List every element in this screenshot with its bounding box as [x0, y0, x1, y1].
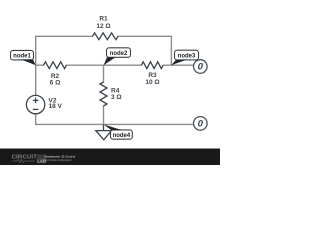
- label R3 10 ohm: [145, 72, 159, 86]
- svg-text:12 Ω: 12 Ω: [96, 23, 110, 30]
- node node3 flag: [175, 50, 199, 60]
- wire top net right of R1 down to node3: [118, 36, 171, 65]
- watermark bar: [0, 149, 220, 166]
- CircuitLab logo: [12, 154, 47, 163]
- wire node1 to R2: [36, 64, 44, 66]
- node3 pointer wedge: [171, 60, 186, 65]
- svg-text:18 V: 18 V: [49, 103, 63, 110]
- svg-text:htlp://circuitlab.com/c6kju6gv: htlp://circuitlab.com/c6kju6gvk2x2: [45, 158, 72, 162]
- label R2 6 ohm: [50, 73, 61, 87]
- node2 pointer wedge: [104, 57, 116, 65]
- label R1 12 ohm: [96, 16, 110, 31]
- svg-text:node3: node3: [178, 54, 196, 60]
- ground: [96, 124, 112, 139]
- node node4 flag: [111, 130, 133, 139]
- svg-text:node1: node1: [13, 54, 31, 60]
- resistor R4: [100, 82, 107, 106]
- svg-text:0: 0: [198, 62, 204, 73]
- probe flag 0 at bottom net: [194, 117, 208, 131]
- wire node1 vertical up to top-left corner: [36, 36, 93, 95]
- probe flag 0 at node3: [194, 60, 208, 74]
- svg-text:R3: R3: [148, 72, 157, 79]
- svg-text:6 Ω: 6 Ω: [50, 79, 61, 86]
- label V2 18 V: [49, 97, 63, 110]
- wire R4 to bottom net: [103, 106, 105, 124]
- watermark credit text: [45, 154, 76, 161]
- svg-text:node2: node2: [110, 51, 128, 57]
- voltage source V2: [26, 95, 44, 113]
- node node1 flag: [11, 50, 34, 60]
- wire R2 to node2 to R3: [67, 64, 142, 66]
- wire R3 to node3 to probe: [163, 64, 193, 66]
- resistor R2: [44, 62, 67, 69]
- wire bottom net V2 to node4 to probe: [36, 114, 194, 125]
- resistor R1: [93, 33, 118, 40]
- node node2 flag: [107, 48, 131, 58]
- node1 pointer wedge: [21, 59, 36, 65]
- svg-text:3 Ω: 3 Ω: [111, 94, 122, 101]
- svg-text:node4: node4: [113, 133, 131, 139]
- svg-text:R1: R1: [99, 16, 108, 23]
- svg-text:CIRCUIT: CIRCUIT: [12, 155, 38, 161]
- svg-text:0: 0: [198, 118, 204, 129]
- svg-text:10 Ω: 10 Ω: [145, 79, 159, 86]
- wire node2 to R4: [103, 65, 105, 82]
- resistor R3: [141, 62, 163, 69]
- node4 pointer wedge: [104, 124, 123, 130]
- label R4 3 ohm: [111, 88, 122, 102]
